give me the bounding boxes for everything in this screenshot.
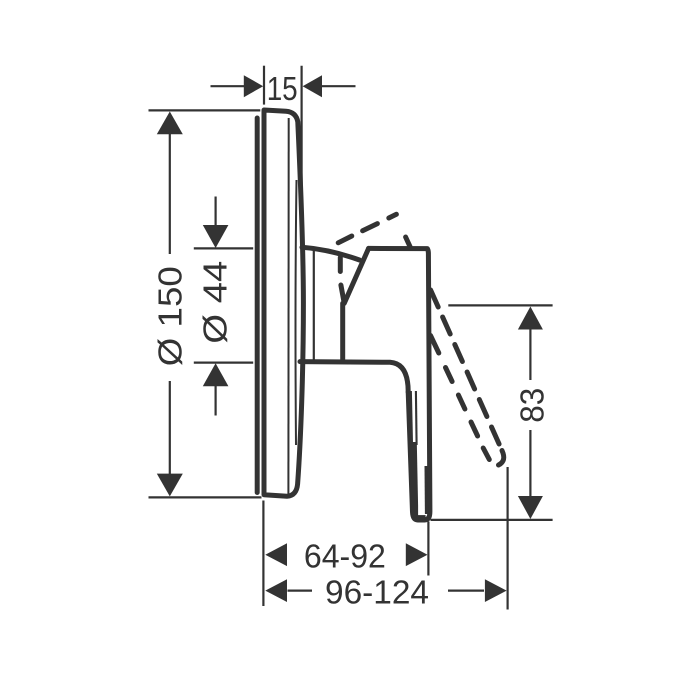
dim 15 leader right xyxy=(322,85,356,87)
dashed lever right line dash 4 xyxy=(467,372,475,389)
dim 15 leader left xyxy=(211,85,245,87)
dim 150 line lower xyxy=(169,381,171,476)
dim 64-92 extension right xyxy=(427,522,429,576)
arrow dim150 top xyxy=(157,112,183,135)
dim 150 bottom extension xyxy=(149,496,262,498)
dashed lever right line dash 5 xyxy=(479,400,487,417)
handle top edge, right edge and lever outline xyxy=(369,248,430,520)
dim 150 top extension xyxy=(149,109,261,111)
plate face contour line 2 xyxy=(295,180,298,445)
dashed lever left line dash 1 xyxy=(431,336,439,354)
arrow dim96-124 left xyxy=(265,579,287,602)
dashed lever right line dash 3 xyxy=(455,345,463,362)
dim 96-124 leader left xyxy=(288,589,313,591)
lever inner face line 2 xyxy=(415,391,418,445)
dashed handle top edge dash 2 xyxy=(363,224,378,231)
dashed lever right line dash 2 xyxy=(443,317,451,334)
arrow dim44 bottom xyxy=(203,363,229,386)
dim 44 top leader xyxy=(215,197,217,227)
arrow dim15 right xyxy=(303,75,322,97)
dim 83 bottom extension xyxy=(431,519,553,521)
arrow dim64-92 right xyxy=(406,543,428,566)
dashed handle left edge dash 2 xyxy=(341,285,344,303)
dashed handle top edge dash 1 xyxy=(338,236,352,243)
svg-text:64-92: 64-92 xyxy=(304,537,386,574)
dim 64-92 extension left xyxy=(262,501,264,607)
dim 96-124 extension right xyxy=(507,467,509,610)
dim 44 top extension xyxy=(194,247,253,249)
dim 44 bottom extension xyxy=(194,362,253,364)
dashed handle top edge dash 3 xyxy=(389,214,397,218)
handle bottom edge to lever corner xyxy=(300,362,408,392)
arrow dim83 bottom xyxy=(518,496,543,519)
dashed lever right line dash 1 xyxy=(431,290,439,307)
dim 96-124 leader right xyxy=(448,589,484,591)
lever inner face line 1 xyxy=(410,391,411,452)
dim 83 line upper xyxy=(529,329,531,381)
svg-text:Ø 150: Ø 150 xyxy=(152,266,189,366)
dim 83 top extension xyxy=(448,304,552,306)
dim 83 line lower xyxy=(529,430,531,498)
dashed lever left line dash 5 xyxy=(483,448,489,460)
dim 44 bottom leader xyxy=(215,386,217,416)
svg-text:96-124: 96-124 xyxy=(325,573,429,610)
arrow dim64-92 left xyxy=(265,543,287,566)
dim 15 extension line right xyxy=(301,66,303,246)
dashed lever right line dash 6 xyxy=(492,427,500,444)
dashed lever left line dash 3 xyxy=(458,395,465,409)
svg-text:83: 83 xyxy=(514,388,551,423)
svg-text:Ø 44: Ø 44 xyxy=(197,261,234,344)
sleeve end line xyxy=(313,251,315,360)
arrow dim44 top xyxy=(203,225,229,248)
handle body white mask xyxy=(344,248,430,520)
dim 15 extension line left xyxy=(263,66,265,105)
sleeve top arc xyxy=(302,247,360,260)
plate back rim xyxy=(255,118,260,493)
lever right edge inner thickening xyxy=(425,466,429,514)
handle cone slant edge xyxy=(344,248,368,303)
lever channel bottom xyxy=(417,515,426,518)
arrow dim15 left xyxy=(244,75,263,97)
dashed lever left line dash 2 xyxy=(446,368,453,382)
escutcheon plate (side view) xyxy=(264,110,303,496)
lever left face merged mass xyxy=(409,442,419,518)
dashed handle alternate position: left edge dash 1 xyxy=(338,258,343,272)
plate face contour line 1 xyxy=(287,118,289,494)
svg-text:15: 15 xyxy=(267,70,298,107)
arrow dim83 top xyxy=(518,307,543,330)
arrow dim150 bottom xyxy=(157,474,183,497)
dashed lever rounded tip dash xyxy=(499,451,504,466)
handle cone left vertical edge xyxy=(340,303,345,359)
dashed lever corner dash xyxy=(406,237,411,247)
arrow dim96-124 right xyxy=(485,579,507,602)
dashed lever left line dash 4 xyxy=(471,422,478,436)
dim 150 line upper xyxy=(169,133,171,254)
